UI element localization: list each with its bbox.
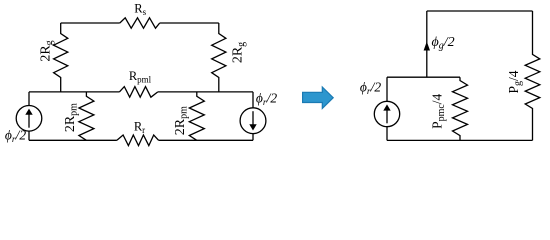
resistor Rs	[120, 2, 160, 29]
wire: sub-loop top rail	[387, 76, 460, 78]
resistor 2Rg right	[212, 23, 247, 92]
svg-text:Pg/4: Pg/4	[506, 70, 524, 93]
wire: left-circuit top rail, right segment	[160, 22, 219, 24]
current source phi_r/2 (right circuit, up)	[360, 77, 400, 140]
svg-text:ϕr/2: ϕr/2	[360, 79, 381, 97]
current source phi_r/2 (right, down)	[240, 90, 277, 140]
svg-text:ϕr/2: ϕr/2	[5, 127, 26, 145]
current source phi_r/2 (left, up)	[5, 92, 42, 145]
wire: right-circuit top rail	[427, 10, 533, 12]
wire: bottom rail, right segment	[159, 139, 253, 141]
wire: right-circuit bottom rail	[387, 139, 533, 141]
current arrow phi_g/2	[424, 11, 455, 77]
resistor 2Rg left	[38, 23, 68, 92]
wire: bottom rail, left segment	[29, 139, 117, 141]
svg-text:ϕg/2: ϕg/2	[432, 35, 455, 52]
resistor Ppmc/4	[430, 77, 468, 140]
resistor Rr	[117, 120, 159, 146]
resistor Pg/4	[506, 11, 540, 140]
transform arrow (blue)	[303, 87, 334, 108]
resistor Rpml	[119, 69, 157, 97]
wire: middle rail, left segment	[29, 91, 119, 93]
wire: left-circuit top rail, left segment	[61, 22, 120, 24]
svg-text:ϕr/2: ϕr/2	[256, 90, 277, 108]
resistor 2Rpm left	[63, 92, 94, 140]
resistor 2Rpm right	[173, 92, 204, 140]
wire: middle rail, right segment	[158, 91, 253, 93]
